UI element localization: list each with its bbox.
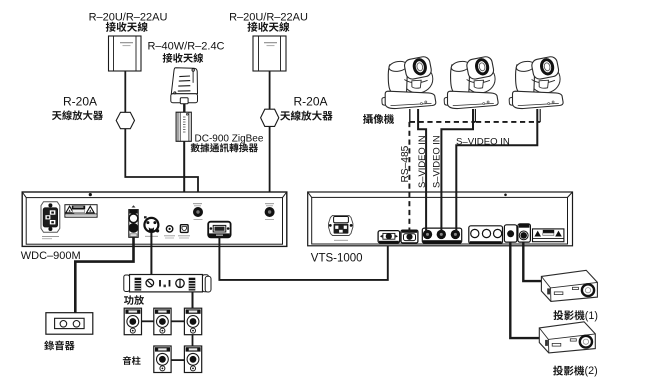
DC-900 ZigBee converter bbox=[176, 112, 191, 141]
label 投影機(2) bbox=[553, 366, 584, 376]
label R-20A right bbox=[280, 94, 332, 120]
label R-20U/R-22AU receiver 2 bbox=[229, 12, 308, 32]
svg-text:WDC–900M: WDC–900M bbox=[21, 250, 81, 262]
wire VTS to projector 2 bbox=[510, 242, 539, 338]
svg-text:R–20U/R–22AU: R–20U/R–22AU bbox=[89, 12, 168, 24]
wire DC-900 to WDC USB port bbox=[183, 141, 185, 223]
svg-text:R-20A: R-20A bbox=[293, 94, 327, 108]
wire row1 to row2 bbox=[192, 335, 194, 346]
VTS IEC power inlet bbox=[329, 215, 353, 240]
svg-text:(2): (2) bbox=[585, 365, 598, 377]
wire WDC to recorder bbox=[75, 237, 133, 312]
svg-text:R–40W/R–2.4C: R–40W/R–2.4C bbox=[147, 41, 224, 53]
screw dot on VTS top edge bbox=[504, 194, 507, 197]
camera1 RS-485 stub bbox=[409, 109, 411, 123]
RS-485 dashed daisy chain horizontal bbox=[410, 121, 540, 123]
recorder 錄音器 bbox=[46, 313, 93, 335]
antenna receiver box 2 bbox=[253, 36, 286, 71]
camera2 S-video wire to BNC2 bbox=[441, 109, 473, 231]
label R-20U/R-22AU receiver 1 bbox=[89, 12, 168, 32]
amplifier 功放 bbox=[124, 275, 211, 293]
label 投影機(1) bbox=[553, 310, 584, 320]
wire VTS to projector 1 bbox=[523, 242, 541, 281]
speaker column row2 #1 bbox=[154, 346, 171, 373]
WDC XLR output connector bbox=[144, 216, 159, 236]
label 錄音器 bbox=[44, 341, 74, 351]
WDC warning label bbox=[65, 205, 97, 218]
hexagon amplifier R-20A left bbox=[116, 112, 134, 128]
wire R-40W to DC-900 bbox=[183, 104, 185, 112]
camera3 S-video wire to BNC3 bbox=[456, 109, 537, 231]
svg-text:S–VIDEO IN: S–VIDEO IN bbox=[456, 137, 510, 148]
label DC-900 ZigBee bbox=[191, 133, 264, 152]
wire speaker1-speaker2 bbox=[142, 320, 154, 322]
wire hexagon2 to WDC antenna connector B bbox=[269, 126, 271, 210]
speaker column row1 #2 bbox=[154, 308, 171, 335]
svg-text:DC-900 ZigBee: DC-900 ZigBee bbox=[195, 133, 264, 144]
hexagon amplifier R-20A right bbox=[261, 109, 279, 126]
camera 3 bbox=[509, 56, 563, 109]
svg-text:S–VIDEO IN: S–VIDEO IN bbox=[416, 135, 427, 188]
camera1 S-video wire to BNC1 bbox=[418, 109, 426, 231]
R-40W wall receiver device bbox=[171, 68, 198, 104]
label 攝像機 bbox=[363, 114, 394, 124]
VTS DB9 RS-232 connector bbox=[378, 231, 400, 243]
wire speaker2-speaker3 bbox=[171, 320, 184, 322]
label R-20A left bbox=[52, 94, 103, 120]
WDC antenna connector B bbox=[265, 204, 275, 220]
wire row2 speakers bbox=[171, 359, 184, 361]
speaker column row2 #2 bbox=[184, 346, 201, 373]
WDC mic/line connector strip bbox=[129, 205, 139, 237]
svg-text:VTS-1000: VTS-1000 bbox=[311, 253, 363, 265]
WDC-900M rear panel body bbox=[22, 192, 287, 246]
camera2 RS-485 stub bbox=[474, 109, 476, 122]
wire hexagon1 to WDC antenna connector A bbox=[125, 129, 198, 211]
WDC USB-B port bbox=[178, 225, 190, 238]
antenna receiver box 1 bbox=[109, 36, 142, 71]
VTS RS-485 connector bbox=[401, 230, 418, 243]
speaker column row1 #1 bbox=[124, 308, 141, 335]
label R-40W/R-2.4C receiver bbox=[147, 41, 224, 63]
VTS warning label bbox=[533, 229, 564, 242]
WDC antenna connector A bbox=[193, 204, 203, 220]
VTS S-video BNC group bbox=[422, 228, 461, 243]
WDC DB9 RS-232 connector bbox=[208, 222, 230, 238]
svg-text:R–20U/R–22AU: R–20U/R–22AU bbox=[229, 12, 308, 24]
RS-485 dashed vertical to VTS bbox=[408, 122, 410, 234]
svg-text:RS–485: RS–485 bbox=[400, 145, 411, 182]
WDC IEC power inlet bbox=[41, 202, 60, 239]
VTS-1000 rear panel body bbox=[308, 192, 573, 246]
screw dot on WDC top edge bbox=[89, 193, 92, 196]
camera3 RS-485 stub bbox=[539, 109, 541, 122]
camera 1 bbox=[382, 56, 436, 109]
WDC small phone jack bbox=[164, 226, 175, 238]
wire WDC DB9 to VTS DB9 bbox=[219, 237, 387, 280]
label 功放 bbox=[124, 295, 144, 305]
wire antenna2 to hexagon2 bbox=[269, 71, 271, 110]
wire antenna1 to hexagon1 bbox=[124, 71, 126, 113]
camera 2 bbox=[444, 56, 498, 109]
svg-text:(1): (1) bbox=[585, 310, 598, 322]
svg-text:R-20A: R-20A bbox=[63, 94, 97, 108]
VTS projector output connector 2 bbox=[518, 224, 531, 242]
projector 1 bbox=[541, 270, 597, 301]
label 音柱 bbox=[123, 356, 141, 365]
wire XLR to amplifier bbox=[150, 232, 152, 274]
projector 2 bbox=[539, 322, 595, 353]
wire amp to speaker row1 bbox=[192, 292, 194, 308]
VTS video out group bbox=[469, 226, 503, 244]
speaker column row1 #3 bbox=[184, 308, 201, 335]
svg-text:S–VIDEO IN: S–VIDEO IN bbox=[431, 135, 442, 188]
VTS projector output connector 1 bbox=[504, 225, 517, 242]
